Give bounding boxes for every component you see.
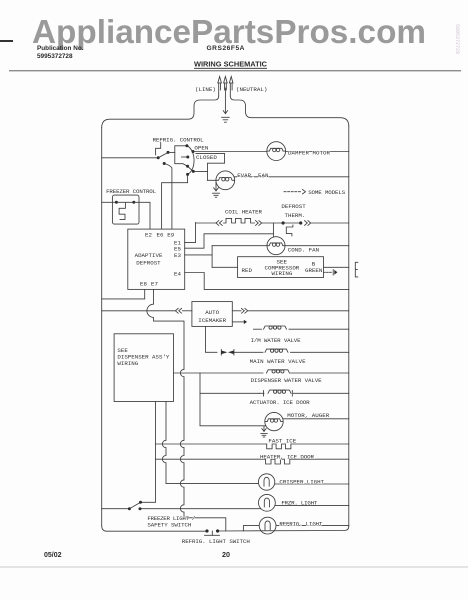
junction dot refrig control common (157, 156, 160, 159)
faint page bottom edge (0, 566, 468, 568)
svg-text:Publication No.: Publication No. (37, 45, 84, 52)
svg-text:COIL HEATER: COIL HEATER (225, 208, 263, 215)
svg-text:REFRIG. LIGHT: REFRIG. LIGHT (279, 520, 323, 527)
cam dot lower left (186, 165, 189, 168)
wire: refrig light left lead to bottom border (243, 526, 258, 531)
wire: lower contact curve to E9 (164, 164, 172, 230)
auger motor M (265, 412, 283, 430)
full width rule under header (9, 70, 461, 72)
svg-text:SOME MODELS: SOME MODELS (308, 189, 346, 196)
svg-text:E6: E6 (157, 232, 164, 239)
wire: stub to cond fan top (272, 234, 274, 237)
cam dot top (185, 144, 188, 147)
freezer control contact dots and blade (115, 201, 135, 204)
wire: right border (348, 126, 350, 527)
refrig light switch dots (205, 529, 219, 532)
wire: compressor B terminal to right border (324, 266, 349, 268)
svg-text:E3: E3 (174, 252, 181, 259)
svg-text:ICEMAKER: ICEMAKER (198, 317, 226, 324)
chassis bracket symbol outside border (355, 262, 358, 277)
refrig control cam box (175, 146, 188, 167)
main valve inline connector pair (221, 350, 263, 356)
cam dot mid contact with stub (182, 156, 190, 159)
freezer safety switch pivot dot (128, 507, 131, 510)
compressor green lead connector (324, 270, 338, 275)
defrost thermostat element (286, 225, 293, 236)
svg-text:5995372728: 5995372728 (454, 24, 460, 54)
power plug prong NEUTRAL (229, 77, 233, 97)
damper motor M (267, 142, 286, 161)
wire: cond fan riser (211, 246, 213, 268)
compressor box (238, 257, 324, 278)
refrig control contact dot lower (163, 162, 166, 165)
wire: damper motor to right border (286, 151, 349, 153)
freezer control thermostat zigzag (119, 203, 125, 219)
svg-text:EVAP. FAN: EVAP. FAN (237, 172, 269, 179)
wire: refrig light to right border (276, 525, 349, 527)
cam dot closed contact (192, 170, 195, 173)
ground symbol at auger motor (261, 427, 267, 438)
wire: feed to refrig control common (102, 157, 159, 159)
svg-text:E9: E9 (167, 232, 174, 239)
wire: pin E1 to coil heater (185, 223, 196, 243)
main water valve solenoid (265, 349, 349, 352)
svg-text:WIRING SCHEMATIC: WIRING SCHEMATIC (194, 60, 268, 69)
svg-text:HEATER, ICE DOOR: HEATER, ICE DOOR (260, 453, 315, 460)
wire: crisper light to right border (275, 483, 349, 485)
svg-text:(NEUTRAL): (NEUTRAL) (236, 86, 267, 93)
auto icemaker box (192, 302, 232, 327)
svg-text:I/M WATER VALVE: I/M WATER VALVE (251, 337, 302, 344)
wire: bottom border right of lamp switch (218, 527, 349, 532)
crisper light lamp (258, 474, 274, 490)
wire: frzr light to right border (275, 504, 349, 506)
wire: pin E3 to cond fan node (185, 254, 212, 256)
freezer safety switch lower contact dot (139, 507, 142, 510)
svg-text:05/02: 05/02 (44, 552, 62, 559)
actuator ice door solenoid with ticks (260, 390, 349, 396)
svg-text:WIRING: WIRING (272, 270, 293, 277)
wire: dispenser box bus A to safety switch upper contact (141, 402, 156, 503)
svg-text:5995372728: 5995372728 (37, 53, 73, 60)
see dispenser assy wiring box (114, 334, 173, 402)
IM water valve solenoid (254, 326, 349, 329)
freezer safety switch blade (129, 502, 140, 508)
refrig light lamp (259, 517, 276, 534)
wire: heater ice door row (156, 458, 266, 460)
svg-text:GRS26F5A: GRS26F5A (207, 45, 245, 52)
wire: left border (101, 128, 103, 527)
ice door heater element (266, 459, 349, 464)
wire: icemaker feed from left border (102, 310, 175, 312)
wire: cond fan to right border (285, 245, 349, 247)
dispenser water valve solenoid (267, 370, 349, 373)
refrig light switch plunger (205, 531, 220, 535)
wire: icemaker out to right border (232, 308, 348, 313)
cam blade lower (188, 166, 194, 171)
svg-text:FRZR. LIGHT: FRZR. LIGHT (281, 500, 318, 507)
svg-text:RED: RED (242, 267, 253, 274)
svg-text:E8: E8 (140, 280, 147, 287)
svg-text:DISPENSER WATER VALVE: DISPENSER WATER VALVE (251, 377, 323, 384)
svg-text:OPEN: OPEN (194, 145, 208, 152)
svg-text:GREEN: GREEN (305, 267, 323, 274)
svg-text:MAIN WATER VALVE: MAIN WATER VALVE (250, 358, 307, 365)
svg-text:(LINE): (LINE) (195, 86, 216, 93)
svg-text:DAMPER MOTOR: DAMPER MOTOR (288, 150, 331, 157)
wire: icemaker box bottom to main valve (206, 326, 218, 352)
scanner edge dash top-left (0, 40, 13, 42)
svg-text:CLOSED: CLOSED (196, 154, 217, 161)
freezer control box (112, 195, 139, 224)
wire: icemaker to IM valve with arrow (232, 320, 247, 324)
svg-text:SAFETY SWITCH: SAFETY SWITCH (147, 521, 192, 528)
power plug prong GROUND (224, 77, 228, 114)
wire: chevrons to icemaker box (182, 310, 192, 312)
wire: pin E7 bus with hop over icemaker feed (147, 289, 226, 531)
wire: open contact to damper motor (193, 151, 267, 153)
wire: freezer control out to E2 (134, 202, 150, 229)
wire: cond fan feed (212, 245, 267, 247)
wire: fast ice row (156, 443, 267, 445)
earth ground symbol under plug (222, 111, 230, 123)
svg-text:REFRIG. LIGHT SWITCH: REFRIG. LIGHT SWITCH (182, 538, 251, 545)
refrig control: actuator tick from label (156, 143, 161, 156)
refrig control cam arc (187, 146, 194, 175)
svg-text:COND. FAN: COND. FAN (288, 246, 320, 253)
svg-text:DEFROST: DEFROST (281, 203, 306, 210)
wire: dispenser valve row from box (174, 372, 264, 374)
wire: top border left segment with line prong entry (102, 96, 219, 128)
svg-text:ADAPTIVE: ADAPTIVE (135, 252, 163, 259)
refrig control switch blade up (158, 152, 168, 157)
wire: evap fan to right border (234, 176, 349, 178)
cond fan motor M (267, 237, 285, 255)
wire: dispenser box bus B with hops (162, 402, 258, 484)
wire: pin E8 return to left border (102, 289, 145, 299)
wire: pin E4 to right border (185, 273, 349, 290)
svg-text:CRISPER LIGHT: CRISPER LIGHT (279, 479, 324, 486)
dashed arrow some models (284, 190, 306, 194)
icemaker feed chevrons (175, 308, 181, 313)
wire: compressor RED feed (212, 266, 238, 268)
wire: defrost row chevrons to right border (305, 221, 349, 226)
wire: safety switch to frzr light (140, 508, 261, 510)
adaptive defrost control box (128, 229, 185, 289)
wire: upper contact stub (168, 151, 175, 153)
svg-text:REFRIG. CONTROL: REFRIG. CONTROL (153, 137, 205, 144)
wire: actuator row (200, 392, 260, 394)
wire: top border right segment with neutral prong entry (230, 96, 348, 126)
frzr light lamp (259, 494, 276, 511)
svg-text:THERM.: THERM. (285, 212, 306, 219)
svg-text:FAST ICE: FAST ICE (268, 438, 296, 445)
cam dot open contact (192, 150, 195, 153)
wire: feed to freezer control (102, 201, 117, 203)
svg-text:E7: E7 (151, 280, 158, 287)
svg-text:ACTUATOR. ICE DOOR: ACTUATOR. ICE DOOR (250, 399, 311, 406)
power plug prong LINE (218, 77, 222, 97)
fast ice heater element (267, 444, 349, 449)
wire: cam bottom to E6 (162, 174, 188, 229)
cam dot bottom (186, 173, 189, 176)
coil heater element with connectors (196, 218, 284, 225)
ground symbol at evap fan (213, 183, 220, 198)
svg-text:WIRING: WIRING (117, 360, 138, 367)
svg-text:AUTO: AUTO (205, 309, 219, 316)
svg-text:20: 20 (222, 550, 230, 559)
svg-text:E4: E4 (174, 271, 181, 278)
evap fan motor M (216, 171, 235, 190)
refrig control contact dot upper (167, 151, 170, 154)
svg-text:FREEZER CONTROL: FREEZER CONTROL (106, 188, 157, 195)
wire: auger motor to right border (283, 418, 349, 420)
svg-text:DEFROST: DEFROST (136, 259, 161, 266)
wire: closed contact zigzag (196, 153, 225, 180)
defrost thermostat dots (282, 221, 303, 224)
wire: bottom border left of lamp switch (102, 526, 207, 531)
wire: riser to actuator and auger rows (200, 373, 266, 426)
freezer safety switch upper contact dot (139, 501, 142, 504)
title underline (194, 67, 267, 69)
svg-text:MOTOR, AUGER: MOTOR, AUGER (287, 412, 330, 419)
svg-text:E2: E2 (145, 232, 152, 239)
wire: closed contact to evap fan (193, 171, 216, 180)
wire: pin E5 to defrost therm node (185, 223, 274, 248)
wire: freezer safety switch feed (102, 508, 130, 510)
